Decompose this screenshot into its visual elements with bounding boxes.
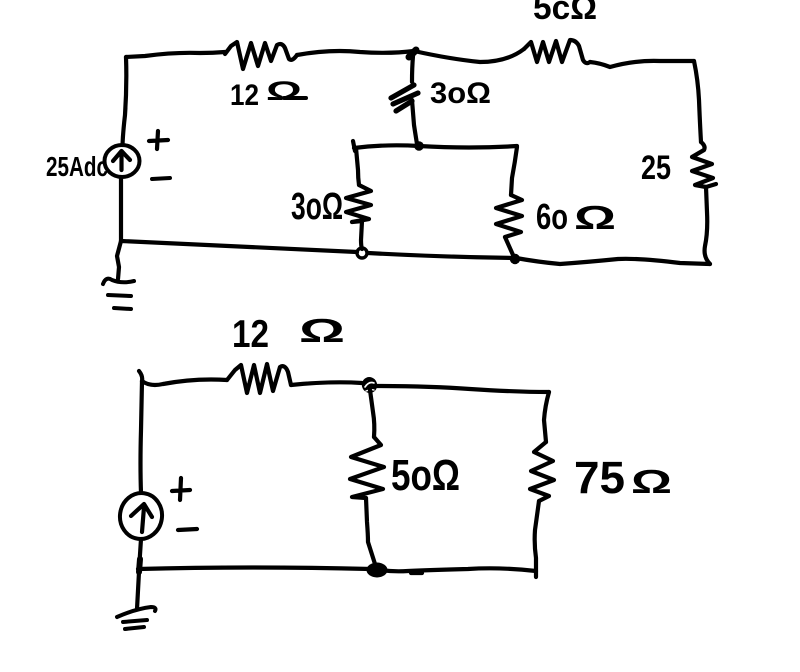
wire R6 down to junction dot (505, 237, 513, 255)
wire top-left horizontal (source to R1) (126, 52, 225, 57)
middle horizontal wire (354, 145, 517, 148)
junction dot node D (414, 141, 424, 151)
wire source bottom down (119, 177, 123, 241)
label 75 ohm (574, 452, 672, 503)
wire R8 down to bottom-right corner (535, 501, 539, 577)
svg-text:Ω: Ω (266, 76, 302, 106)
resistor R2 50ohm (top right) (524, 40, 590, 63)
wire R4 down to node D (412, 100, 417, 144)
node ring (30ohm bottom) (357, 248, 367, 258)
wire source top up to corner (123, 57, 127, 145)
label 60ohm (536, 196, 616, 237)
svg-text:3oΩ: 3oΩ (291, 186, 343, 228)
ground G2 middle bar (123, 620, 147, 622)
label 12ohm (top circuit) (230, 76, 306, 112)
label 30ohm (lower) (291, 186, 343, 228)
wire source bottom to rail (139, 539, 141, 570)
wire R3 down to bottom-right corner (705, 187, 710, 264)
svg-text:Ω: Ω (299, 312, 345, 349)
label 12 ohm (bottom circuit) (232, 312, 345, 356)
wire right side down to R3 (694, 61, 701, 142)
middle wire left tick (353, 141, 355, 151)
svg-text:5cΩ: 5cΩ (533, 0, 597, 27)
minus sign (I2) (178, 529, 197, 530)
wire middle-right down to R6 (511, 147, 517, 195)
junction tick (bottom rail) (139, 559, 140, 572)
label 30ohm (upper) (430, 77, 491, 110)
bottom wire (middle section) (368, 253, 516, 258)
svg-text:5oΩ: 5oΩ (391, 451, 460, 500)
wire right side down to R8 (544, 392, 549, 442)
svg-text:3oΩ: 3oΩ (430, 77, 491, 110)
ground G2 bottom bar (125, 627, 144, 629)
wire R7 to node B (291, 382, 362, 385)
ground G1 middle bar (108, 295, 131, 296)
wire R1 to node A (297, 51, 414, 55)
bottom wire (right section) (516, 258, 710, 264)
wire node A to R2 (414, 49, 524, 62)
bottom wire (left section to source) (121, 241, 357, 252)
resistor R5 30ohm lower (vertical) (346, 185, 371, 222)
ground G2 top stroke (117, 607, 156, 617)
resistor R3 25ohm (right, vertical) (692, 142, 716, 187)
label 25Adc (46, 151, 108, 182)
top-left corner hook (139, 371, 142, 381)
wire node B down to R9 (370, 390, 374, 437)
svg-text:12: 12 (230, 79, 259, 112)
svg-text:Ω: Ω (631, 463, 672, 500)
bottom wire (left of node C) (138, 568, 371, 570)
node A junction tick (409, 50, 416, 57)
resistor R1 12ohm (top left) (225, 42, 297, 69)
ground G1 bottom bar (114, 308, 131, 309)
svg-text:75: 75 (574, 452, 625, 503)
wire R2 to top-right corner (590, 61, 694, 67)
ground G1 top stroke (103, 279, 134, 284)
label 25 (641, 149, 671, 187)
plus sign (I1) (149, 131, 168, 149)
current source I2 arrow (131, 504, 152, 532)
svg-text:12: 12 (232, 313, 269, 356)
junction dot (60ohm bottom) (510, 254, 520, 264)
svg-text:Ω: Ω (574, 199, 616, 236)
resistor R7 12ohm (bottom circuit) (227, 364, 291, 393)
svg-text:6o: 6o (536, 196, 568, 237)
wire node A down to R4 (412, 56, 413, 82)
resistor R8 75ohm (vertical) (530, 442, 554, 501)
current source I1 circle (105, 145, 140, 177)
wire middle-left down to R5 (356, 148, 359, 185)
resistor R6 60ohm (vertical) (496, 195, 522, 237)
wire R5 down to node ring (361, 221, 362, 249)
resistor R9 50ohm (vertical) (350, 437, 384, 498)
wire node B to top-right corner (375, 386, 549, 392)
bottom wire (right of node C) (380, 568, 536, 571)
label 50ohm (cut off at top) (533, 0, 597, 27)
minus sign (I1) (152, 178, 170, 179)
plus sign (I2) (172, 478, 190, 500)
junction blob node C (367, 563, 388, 578)
current source I2 circle (117, 490, 165, 541)
ground G2 stem (137, 572, 139, 609)
ground G1 stem (117, 241, 121, 279)
svg-text:25: 25 (641, 149, 671, 187)
label 50ohm (391, 451, 460, 500)
small dash on bottom wire (411, 571, 422, 575)
current source I1 arrow (113, 151, 130, 170)
node B scribble ring (359, 375, 379, 396)
wire R9 down to node C (366, 498, 375, 564)
svg-text:25Adc: 25Adc (46, 151, 108, 182)
resistor R4 30ohm upper (diagonal slashes) (391, 85, 418, 111)
wire left side (corner down to source) (141, 381, 143, 493)
top wire left (to R7) (142, 380, 227, 386)
